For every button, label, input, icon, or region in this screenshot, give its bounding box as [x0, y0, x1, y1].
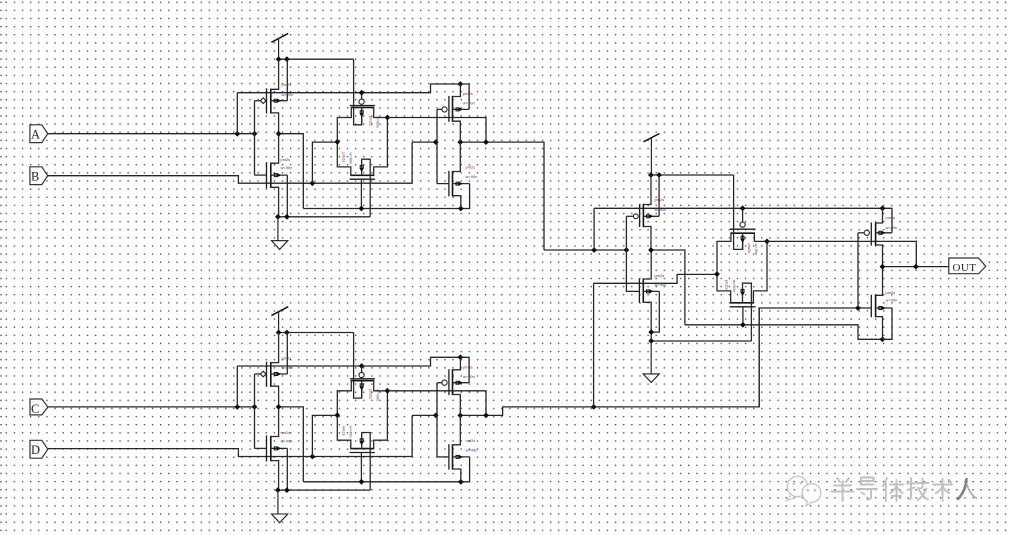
gate bubble of M9: [633, 214, 638, 219]
wire output row to OUT pin: [883, 266, 949, 268]
wire rail2 end to M3 bulk: [460, 84, 469, 109]
wire M2 bulk to ground rail: [286, 175, 288, 217]
output pin OUT: [949, 258, 986, 274]
svg-text:w=90n: w=90n: [886, 298, 898, 303]
wire vdd elbow to TG3 pmos bulk: [734, 175, 743, 249]
label M6 name/params: [281, 430, 293, 443]
junction M12 source on row1-3: [880, 336, 886, 342]
junction TG2 nmos gate on row1 of cell2: [359, 479, 365, 485]
svg-text:D: D: [31, 443, 40, 457]
wire inverter3 input gate column: [626, 216, 639, 291]
wire stub D to transmission-gate-2 left terminal: [312, 415, 337, 456]
wire Abar3 from inverter3 output down to row1-3: [651, 250, 685, 325]
wire riser node A to rail2: [236, 93, 238, 134]
transistor M11 (PMOS, output inverter cell3): [858, 208, 892, 266]
junction out-inverter gate on row3: [433, 139, 439, 145]
junction inverter2 output on node Cbar: [276, 404, 282, 410]
svg-text:pm2s: pm2s: [655, 197, 665, 202]
wire row1-3 node Abar3: [685, 325, 883, 340]
port B: [30, 167, 48, 185]
svg-text:w=90n: w=90n: [886, 225, 898, 230]
wire M6 bulk to ground rail of cell2: [286, 448, 288, 490]
svg-text:pm2s: pm2s: [747, 244, 752, 254]
transistor M9 (PMOS, input inverter cell3): [626, 175, 659, 250]
svg-text:nm2s: nm2s: [466, 438, 476, 443]
node C junction to vdd-rail riser: [234, 404, 240, 410]
wire TG2 pmos gate stem: [361, 366, 363, 372]
label MT2 name/params: [342, 153, 354, 165]
junction vdd rail3 / M9 bulk: [656, 172, 662, 178]
wire row2 ground rail of cell2: [278, 489, 370, 491]
gate bubble of M7: [442, 380, 447, 385]
ground symbol cell2: [272, 490, 288, 523]
transistor M6 (NMOS, input inverter cell2): [255, 407, 288, 490]
junction TG output on row3: [483, 139, 489, 145]
ground symbol cell3: [643, 341, 659, 382]
wire riser Aprime to rail2-3: [593, 208, 595, 250]
wire vdd rail1 of cell 3: [651, 174, 734, 176]
wire B from pin B with jog: [48, 142, 412, 183]
svg-text:pm2s: pm2s: [282, 356, 292, 361]
power vdd symbol (slash) for cell 2: [271, 307, 288, 333]
port C: [30, 399, 48, 415]
label M9 name/params: [655, 197, 667, 212]
svg-text:pm2s: pm2s: [369, 116, 374, 126]
gate bubble of M11: [864, 230, 869, 235]
svg-text:w=45n: w=45n: [466, 448, 478, 453]
gate bubble of M3: [442, 107, 447, 112]
junction TG3 left terminal node: [714, 271, 720, 277]
svg-text:pm2s: pm2s: [463, 91, 473, 96]
transistor M4 (NMOS, output inverter cell1): [437, 142, 470, 208]
wire M1 bulk to vdd rail: [286, 59, 288, 100]
svg-text:pm2s: pm2s: [463, 364, 473, 369]
wire row1-3 end to M12 bulk: [883, 308, 893, 340]
wire TG3 pmos gate stem: [742, 208, 744, 222]
svg-text:pm2s: pm2s: [725, 280, 730, 290]
junction M2 source on ground rail: [275, 214, 281, 220]
svg-text:pm2s: pm2s: [369, 389, 374, 399]
svg-text:pm2s: pm2s: [655, 273, 665, 278]
svg-text:B: B: [31, 170, 39, 184]
junction ground rail3: [648, 338, 654, 344]
label MT6 name/params: [342, 426, 354, 438]
wire inverter2 input gate column: [254, 374, 256, 448]
wire row2-3 ground rail: [651, 340, 751, 342]
junction rail2-3 / M11 source: [880, 205, 886, 211]
svg-text:nm2s: nm2s: [281, 430, 291, 435]
wire row3 output segment of cell1: [460, 142, 544, 250]
junction TG3 nmos gate on row1-3: [740, 322, 746, 328]
junction out-inverter drain on row3: [457, 139, 463, 145]
junction out-inverter-3 gate column: [855, 305, 861, 311]
junction TG3 right terminal node: [764, 239, 770, 245]
svg-text:w=90n: w=90n: [754, 244, 759, 256]
label M12 name/params: [886, 290, 898, 303]
transistor M1 (PMOS, input inverter cell1): [255, 59, 288, 134]
svg-text:C: C: [31, 402, 39, 416]
wire row1 node Cbar: [303, 457, 469, 482]
wire Cbar from inverter2 output down to row1 of cell2: [279, 407, 304, 482]
svg-text:w=90n: w=90n: [463, 101, 475, 106]
junction inverter3 output on Abar3: [648, 247, 654, 253]
svg-text:w=45n: w=45n: [349, 426, 354, 438]
label M1 name/params: [282, 82, 294, 97]
transistor MT6 (NMOS of transmission gate cell2): [337, 391, 387, 490]
wire row1 node Abar: [303, 184, 469, 209]
wire out-inverter gate column cell1: [436, 109, 438, 183]
junction out-inverter2 drain on row3 of cell2: [457, 413, 463, 419]
transistor MT5 (PMOS of transmission gate cell2): [337, 379, 387, 415]
transistor M7 (PMOS, output inverter cell2): [437, 357, 469, 415]
transistor M8 (NMOS, output inverter cell2): [437, 415, 470, 481]
node B junction to TG input stub: [310, 180, 316, 186]
gate bubble of transmission-gate PMOS: [359, 99, 364, 104]
transistor MT3 (PMOS of transmission gate cell3): [717, 229, 767, 274]
junction TG3 pmos gate on rail2-3: [740, 205, 746, 211]
junction TG3 output on out row: [913, 264, 919, 270]
wire Bprime feed to TG3 left terminal: [593, 274, 717, 283]
ground symbol cell1: [272, 217, 288, 250]
label M3 name/params: [463, 91, 475, 106]
svg-text:A: A: [31, 128, 40, 142]
svg-text:pm2s: pm2s: [466, 165, 476, 170]
port D: [30, 440, 48, 458]
label M5 name/params: [282, 356, 294, 371]
svg-text:w=90n: w=90n: [466, 174, 478, 179]
svg-text:pm2s: pm2s: [282, 82, 292, 87]
svg-text:w=90n: w=90n: [655, 282, 667, 287]
transistor M2 (NMOS, input inverter cell1): [255, 134, 288, 217]
node D junction to TG2 input stub: [310, 454, 316, 460]
wire C from pin C to inverter2 input: [48, 406, 255, 408]
power vdd symbol (slash) for cell 3: [644, 134, 660, 176]
wire vdd rail1 of cell 2: [279, 332, 354, 334]
svg-text:OUT: OUT: [953, 262, 977, 274]
junction M10 source on ground rail3: [648, 329, 654, 335]
label MT3 name/params: [747, 244, 759, 256]
transistor MT4 (NMOS of transmission gate cell3): [717, 241, 767, 341]
transistor MT2 (NMOS of transmission gate cell1): [337, 118, 387, 217]
wire row3 segment node D to out-inverter2 gate: [412, 414, 437, 416]
wire M10 bulk to ground rail3: [651, 291, 659, 332]
power vdd symbol (slash) for cell 1: [271, 33, 288, 59]
junction M8 source on row1 of cell2: [458, 479, 464, 485]
wire rail2 of cell2 node C: [237, 357, 460, 366]
wire TG3 output to out row: [767, 241, 916, 266]
wire TG pmos gate stem: [361, 93, 363, 99]
junction inverter1 output on node Abar: [276, 131, 282, 137]
wire vdd rail1 of cell 1: [279, 58, 354, 60]
label M10 name/params: [655, 273, 667, 287]
label M4 name/params: [466, 165, 478, 180]
transistor M3 (PMOS, output inverter cell1): [437, 84, 469, 142]
junction TG2 output on row3 of cell2: [483, 413, 489, 419]
wire rail2 node A to output stage: [237, 84, 460, 93]
wire cell2 output to out-inverter-3 gate route: [759, 308, 871, 407]
junction M4 source on row1: [458, 206, 464, 212]
svg-text:w=90n: w=90n: [376, 389, 381, 401]
label MT4 name/params: [725, 280, 738, 292]
svg-text:w=90n: w=90n: [349, 153, 354, 165]
node C junction at inverter2 gate column: [252, 404, 258, 410]
wire D from pin D with jog: [48, 415, 412, 456]
port A: [30, 125, 48, 143]
junction TG2 right terminal node: [385, 388, 391, 394]
svg-text:pm2s: pm2s: [886, 290, 896, 295]
junction vdd rail / M1 bulk: [284, 56, 290, 62]
wire rail2-3 node Aprime: [594, 208, 892, 233]
junction Aprime to rail2-3 riser: [591, 247, 597, 253]
wire TG2 output to out-inverter2 drain row: [387, 391, 486, 416]
wire Abar from inverter output down to row1: [279, 134, 304, 209]
transistor MT1 (PMOS of transmission gate cell1): [337, 106, 387, 142]
wire stub B to transmission-gate left terminal: [312, 142, 337, 183]
watermark logo chat-bubbles: [787, 476, 821, 506]
gate bubble of M5: [260, 371, 266, 377]
junction Bprime riser on cell2 output: [591, 404, 597, 410]
svg-text:w=90n: w=90n: [463, 374, 475, 379]
wire M9 bulk to vdd rail3: [658, 175, 660, 216]
junction TG2 pmos gate on rail2 of cell2: [359, 363, 365, 369]
label M2 name/params: [281, 157, 293, 170]
wire inverter U1 input gate column: [254, 101, 256, 175]
junction M2 bulk on ground rail: [284, 214, 290, 220]
svg-text:pm2s: pm2s: [281, 157, 291, 162]
junction TG nmos gate on row1: [359, 206, 365, 212]
wire M5 bulk to vdd rail: [286, 333, 288, 375]
label M7 name/params: [463, 364, 475, 379]
watermark text 半导体技术人 (hand-drawn strokes): [832, 478, 977, 502]
gate bubble of transmission-gate-2 PMOS: [359, 372, 364, 377]
label M11 name/params: [886, 215, 898, 230]
junction TG2 left terminal node: [334, 412, 340, 418]
wire row2 ground rail: [278, 216, 370, 218]
node A junction to vdd-rail riser: [234, 131, 240, 137]
junction out-inverter2 gate on row3 of cell2: [433, 413, 439, 419]
junction vdd rail2cell / M5 bulk: [284, 330, 290, 336]
junction inverter3 drains on out row: [880, 264, 886, 270]
junction rail2 / M3 source: [458, 81, 464, 87]
junction TG right terminal node: [385, 115, 391, 121]
svg-text:w=90n: w=90n: [376, 116, 381, 128]
svg-text:pm2s: pm2s: [886, 215, 896, 220]
junction TG left terminal node: [334, 139, 340, 145]
svg-text:w=45n: w=45n: [281, 439, 293, 444]
junction Aprime at inverter3 gate column: [624, 247, 630, 253]
junction M6 source on ground rail of cell2: [275, 487, 281, 493]
wire vdd elbow to TG2 pmos bulk: [354, 333, 362, 399]
wire row3 segment node B to out-inverter gate: [412, 141, 437, 143]
wire vdd elbow to TG pmos bulk: [354, 59, 362, 125]
gate bubble of M1: [260, 98, 266, 104]
svg-text:pm2s: pm2s: [342, 153, 347, 163]
wire out-inverter2 gate column: [436, 383, 438, 457]
label MT5 name/params: [369, 389, 381, 401]
junction M6 bulk on ground rail of cell2: [284, 487, 290, 493]
svg-text:nm2s: nm2s: [342, 426, 347, 436]
wire A from pin A to inverter input: [48, 133, 255, 135]
svg-text:w=90n: w=90n: [281, 165, 293, 170]
wire row3 output segment of cell2 with jog: [460, 308, 759, 415]
junction TG pmos gate on rail2: [359, 90, 365, 96]
wire Aprime line into cell3: [544, 249, 626, 251]
wire riser node C to rail2 of cell2: [236, 366, 238, 407]
transistor M12 (NMOS, output inverter cell3): [871, 267, 892, 340]
transistor M10 (NMOS, input inverter cell3): [639, 250, 659, 341]
wire Bprime riser from cell2 output: [593, 283, 595, 407]
svg-text:w=90n: w=90n: [732, 280, 737, 292]
label M8 name/params: [466, 438, 478, 453]
wire out-inverter3 gate column: [857, 233, 859, 308]
transistor M5 (PMOS, input inverter cell2): [255, 333, 288, 407]
junction rail2cell2 / M7 source: [458, 354, 464, 360]
wire rail2cell2 end to M7 bulk: [460, 357, 469, 382]
gate bubble of transmission-gate-3 PMOS: [740, 222, 745, 227]
wire TG output to out-inverter drain row: [387, 118, 486, 143]
node A junction at inverter gate column: [252, 131, 258, 137]
junction vdd rail / M1 source: [276, 56, 282, 62]
junction vdd rail2cell / M5 source: [276, 330, 282, 336]
junction vdd rail3 / M9 source: [648, 172, 654, 178]
label MT1 name/params: [369, 116, 381, 128]
